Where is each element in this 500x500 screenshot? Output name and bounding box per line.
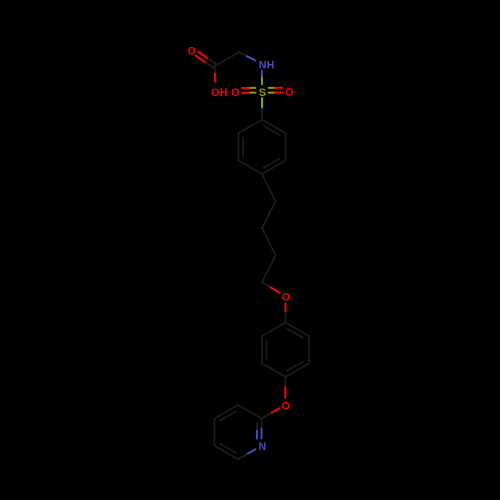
- svg-text:O: O: [231, 87, 239, 99]
- pyridine bond N-C6: [238, 449, 255, 459]
- ring2 benzene bond ul-t: [262, 323, 286, 337]
- chain bond c3-c4: [262, 255, 276, 282]
- bond O2-C2py: [262, 408, 280, 418]
- ring1 benzene bond t-ur double: [262, 120, 286, 135]
- bond C1=O carbonyl double: [196, 52, 217, 68]
- svg-text:O: O: [282, 292, 290, 304]
- svg-text:O: O: [285, 87, 293, 99]
- ring1 benzene bond lr-b double: [262, 159, 286, 174]
- bond C1-OH hydroxyl: [214, 66, 216, 82]
- chain bond c1-c2: [262, 201, 276, 228]
- pyridine bond C3-C2py: [238, 405, 262, 419]
- pyridine bond C4=C3 double: [214, 405, 238, 420]
- chain bond c2-c3: [262, 228, 276, 255]
- bond NH-S: [261, 71, 263, 84]
- pyridine bond C2=N double: [257, 419, 262, 439]
- svg-text:O: O: [211, 87, 219, 99]
- bond ring2b-O2: [284, 377, 286, 398]
- pyridine bond C5-C4: [213, 419, 215, 446]
- ring2 benzene bond b-ll: [262, 363, 286, 377]
- svg-text:O: O: [188, 46, 196, 58]
- bond C1-C2: [215, 52, 239, 66]
- pyridine bond C6=C5 double: [214, 444, 238, 459]
- svg-text:H: H: [220, 87, 228, 99]
- ring2 benzene bond t-ur double: [286, 323, 310, 338]
- bond C2-NH: [239, 52, 255, 60]
- svg-text:S: S: [259, 87, 266, 99]
- ring1 benzene bond b-ll: [238, 160, 262, 174]
- ring1 benzene bond ll-ul double: [238, 133, 243, 160]
- ring2 benzene bond ur-lr: [308, 336, 310, 363]
- chain bond ring1b-c1: [262, 174, 276, 201]
- ring2 benzene bond ll-ul double: [262, 336, 267, 363]
- svg-text:N: N: [258, 441, 266, 453]
- ring1 benzene bond ur-lr: [285, 133, 287, 160]
- bond S=O left double: [242, 88, 256, 93]
- svg-text:H: H: [267, 59, 275, 71]
- svg-text:N: N: [259, 59, 267, 71]
- bond S-ring1 top: [261, 98, 263, 120]
- bond O1-ring2 top: [285, 303, 287, 322]
- bond S=O right double: [269, 88, 283, 93]
- svg-text:O: O: [282, 400, 290, 412]
- ring2 benzene bond lr-b double: [286, 362, 310, 377]
- ring1 benzene bond ul-t: [238, 120, 262, 134]
- bond c4-O1 ether: [262, 282, 279, 292]
